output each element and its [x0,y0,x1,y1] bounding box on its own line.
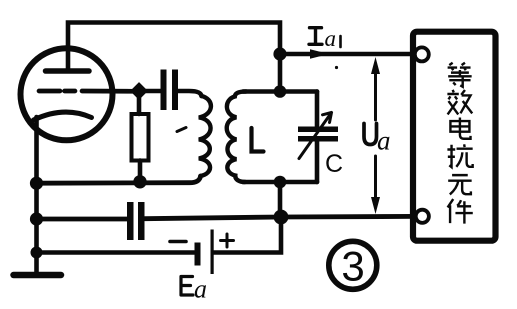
svg-text:a: a [377,126,391,156]
wire feedback coil bottom to grid-leak bottom rail [37,176,201,183]
bypass capacitor plates [127,202,134,240]
label 电 (CJK drawn) [450,117,470,138]
wire tank bottom to bottom rail [278,182,283,217]
terminal top (input) [415,47,429,61]
grid capacitor plates [161,70,167,111]
wire grid capacitor to feedback coil [178,91,202,96]
grid resistor R [137,97,142,114]
tube V1 grid (dashed) [39,89,135,94]
node tank bottom junction [274,176,287,189]
node cathode rail junction 3 [31,247,43,259]
wire bottom rail bypass capacitor to load terminal [145,216,415,218]
ground [14,272,62,279]
stray mark between coils [177,128,186,132]
node cathode rail junction 1 [30,177,43,190]
wire battery rail left [37,250,195,255]
variable capacitor adjustment arrow [299,113,332,159]
inductor L (tank coil) [227,92,246,183]
label 件 (CJK drawn) [448,199,473,224]
node grid junction [132,84,147,99]
tank top wire [243,89,317,94]
label 抗 (CJK drawn) [447,144,472,167]
wire tank right branch upper [315,92,320,127]
voltage arrow Ua (double-ended) [371,57,380,214]
label Ea [181,275,207,304]
label Ia [309,26,341,51]
wire cathode lead down left side [34,117,39,272]
node bottom rail junction [274,210,289,225]
node resistor bottom junction [133,175,146,188]
svg-text:3: 3 [341,243,364,290]
battery Ea positive plate [211,230,214,275]
wire bottom rail left of bypass capacitor [37,217,128,222]
tube V1 plate (anode) [46,68,90,74]
wire tank right branch lower [315,142,320,183]
variable capacitor C plates [298,127,338,133]
wire grid to grid capacitor [139,89,161,94]
svg-text:C: C [325,150,343,178]
tube V1 cathode [34,112,92,120]
label plus [221,234,234,247]
label L [252,128,264,152]
svg-text:a: a [194,275,207,304]
vacuum tube V1 envelope [21,48,113,140]
wire node A to load terminal with Ia arrow [280,52,414,57]
terminal bottom (return) [416,210,429,223]
equivalent reactance element box [413,32,496,241]
label minus [170,240,186,244]
svg-text:a: a [325,26,337,51]
label Ua [364,124,391,156]
battery Ea negative plate [195,243,201,266]
figure number circled 3 [329,241,377,289]
wire battery to bottom rail [214,224,281,253]
feedback coil (transformer primary) [199,96,211,176]
node tank top junction [274,85,287,98]
current arrow Ia [310,49,329,58]
label 效 (CJK drawn) [447,90,472,115]
wire plate-lead top loop: tube plate up, across top, down to node A [68,23,280,92]
node cathode rail junction 2 [30,212,43,225]
node A (top junction of tank) [273,47,286,60]
tank bottom wire [243,180,317,185]
label 元 (CJK drawn) [448,175,471,194]
speck [335,66,338,69]
label 等 (CJK drawn) [448,63,472,87]
